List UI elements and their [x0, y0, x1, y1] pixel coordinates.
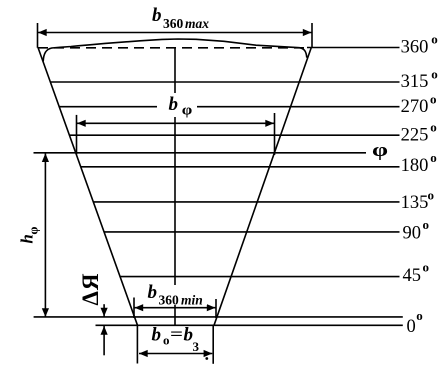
dimension b_o right extension line: [212, 326, 214, 364]
dimension b360min right extension line: [215, 299, 217, 318]
svg-text:3: 3: [193, 339, 200, 354]
svg-text:o: o: [163, 333, 170, 348]
dimension delta-R upper dimension line: [103, 304, 105, 316]
svg-text:o: o: [416, 308, 423, 323]
dimension h_phi vertical dimension line: [44, 153, 46, 317]
left slant side of trapezoid: [38, 48, 138, 326]
angle line 225: [69, 134, 399, 136]
arrowhead b_o right: [204, 350, 213, 357]
svg-text:0: 0: [407, 317, 416, 337]
arrowhead b360min left: [135, 304, 144, 311]
arrowhead b_o left: [139, 350, 148, 357]
angle line 315: [50, 81, 399, 83]
svg-text:min: min: [181, 293, 203, 308]
angle line 360: [307, 47, 400, 49]
svg-text:90: 90: [403, 224, 422, 244]
dimension b360max right extension line: [311, 23, 313, 48]
right slant side of trapezoid: [214, 48, 311, 326]
svg-text:225: 225: [401, 125, 429, 145]
svg-text:b: b: [169, 94, 179, 115]
dimension b_o dimension line: [139, 353, 212, 355]
arrowhead b360max right: [303, 29, 312, 36]
svg-text:b: b: [152, 325, 162, 346]
dimension b360min left extension line: [133, 298, 135, 319]
svg-text:=: =: [170, 325, 183, 344]
white mask for b360min label: [146, 285, 207, 305]
label delta-R rotated: [78, 272, 103, 305]
label h_phi rotated: [18, 226, 41, 243]
svg-text:b: b: [148, 282, 158, 303]
angle line 0 baseline: [34, 316, 403, 318]
svg-text:315: 315: [401, 72, 429, 92]
dashed theoretical top line b360max level: [38, 47, 305, 49]
vertical center line: [174, 48, 176, 326]
arrowhead h_phi bottom: [42, 308, 49, 317]
svg-text:o: o: [431, 67, 438, 82]
arrowhead b_phi left: [77, 120, 86, 127]
white mask for b_phi label: [157, 93, 197, 117]
angle line 90: [104, 231, 400, 233]
svg-text:ΔЯ: ΔЯ: [78, 272, 103, 305]
angle line 45: [120, 276, 400, 278]
arrowhead h_phi top: [42, 153, 49, 162]
arrowhead delta-R up: [101, 326, 108, 335]
dimension b360min dimension line: [135, 307, 216, 309]
svg-text:φ: φ: [25, 226, 40, 234]
svg-text:180: 180: [401, 156, 429, 176]
svg-text:o: o: [430, 150, 437, 165]
svg-text:o: o: [431, 32, 438, 47]
dimension b_o left extension line: [136, 326, 138, 364]
svg-text:45: 45: [403, 266, 422, 286]
dimension b360max left extension line: [37, 23, 39, 48]
actual profile top arc with corner fillets: [43, 39, 307, 61]
svg-text:360: 360: [159, 293, 180, 308]
angle line phi: [34, 152, 367, 154]
svg-text:o: o: [430, 120, 437, 135]
angle line 180: [81, 166, 400, 168]
arrowhead b360max left: [38, 29, 47, 36]
dimension b_phi dimension line: [77, 122, 274, 124]
svg-text:o: o: [430, 91, 437, 106]
svg-text:270: 270: [401, 97, 429, 117]
angle line 135: [93, 201, 399, 203]
dimension delta-R lower dimension line: [103, 326, 105, 355]
dimension b_phi right extension line: [274, 113, 276, 155]
svg-text:360: 360: [401, 38, 429, 58]
svg-text:o: o: [428, 187, 435, 202]
dimension b_phi left extension line: [76, 115, 78, 154]
svg-text:o: o: [423, 260, 430, 275]
angle line 270: [59, 106, 399, 108]
dimension b360max dimension line: [38, 32, 312, 34]
svg-text:max: max: [185, 16, 209, 31]
bottom line at delta level: [96, 324, 403, 326]
svg-text:b: b: [152, 5, 162, 26]
arrowhead b360min right: [207, 304, 216, 311]
stray dot near b_3: [205, 357, 208, 360]
arrowhead b_phi right: [265, 120, 274, 127]
arrowhead delta-R down: [101, 308, 108, 317]
svg-text:360: 360: [163, 16, 184, 31]
svg-text:o: o: [423, 217, 430, 232]
svg-text:135: 135: [401, 193, 429, 213]
svg-text:φ: φ: [182, 102, 193, 118]
svg-text:φ: φ: [372, 139, 388, 160]
